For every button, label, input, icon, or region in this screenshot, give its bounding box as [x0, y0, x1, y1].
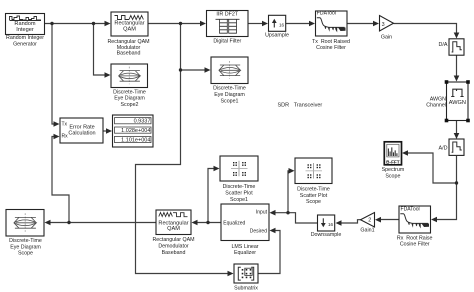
block: LMS Linear Equalizer [221, 204, 269, 256]
svg-text:Discrete-Time: Discrete-Time [9, 238, 42, 244]
svg-text:1.101e+004: 1.101e+004 [121, 138, 150, 144]
wire: D/A to AWGN Channel [454, 55, 460, 82]
svg-text:Tx: Tx [62, 122, 68, 128]
svg-text:Random Integer: Random Integer [6, 35, 44, 41]
block: Discrete-Time Eye Diagram Scope1 (top) [211, 57, 248, 104]
svg-text:Generator: Generator [13, 41, 37, 47]
wire: long branch down-left-down to Submatrix [136, 70, 234, 276]
svg-text:1.028e+004: 1.028e+004 [121, 128, 150, 134]
svg-text:Scatter Plot: Scatter Plot [225, 190, 253, 196]
block: Random Integer Generator [6, 14, 45, 48]
svg-text:Downsample: Downsample [311, 232, 342, 238]
svg-text:Discrete-Time: Discrete-Time [113, 89, 146, 95]
svg-text:Submatrix: Submatrix [234, 285, 258, 291]
block: Discrete-Time Eye Diagram Scope2 [111, 64, 148, 108]
svg-text:16: 16 [279, 22, 285, 27]
svg-text:Input: Input [256, 209, 268, 215]
svg-text:Scope1: Scope1 [221, 98, 239, 104]
wire: branch up-left-up to Error Rate Rx [52, 134, 69, 223]
svg-text:FDATool: FDATool [317, 11, 336, 17]
svg-text:Integer: Integer [16, 27, 34, 33]
junction: Spectrum Scope branch on A/D output wire [455, 181, 458, 184]
svg-text:Discrete-Time: Discrete-Time [213, 86, 246, 92]
svg-text:Equalizer: Equalizer [234, 250, 256, 256]
junction: Scatter Scope branch on downsample output wire [286, 211, 289, 214]
svg-text:Baseband: Baseband [162, 250, 186, 256]
svg-text:Scatter Plot: Scatter Plot [300, 193, 328, 199]
wire: QAM Modulator output to Digital Filter [148, 21, 206, 27]
svg-text:Eye Diagram: Eye Diagram [114, 96, 145, 102]
wire: Submatrix output up to LMS Desired [258, 228, 280, 274]
wire: Gain to D/A [394, 24, 460, 39]
svg-text:IIR DF2T: IIR DF2T [216, 12, 239, 18]
svg-text:Random: Random [14, 21, 35, 27]
wire: branch down to Error Rate Tx [52, 24, 60, 127]
junction: Eye Scope2 branch on generator output wire [92, 22, 95, 25]
block: Gain [380, 16, 394, 41]
wire: A/D down and left to Rx filter [431, 156, 457, 222]
block: Tx Root Raised Cosine Filter [312, 11, 350, 51]
svg-text:Rx Root Raise: Rx Root Raise [397, 235, 433, 241]
svg-text:16: 16 [328, 222, 334, 227]
svg-text:A/D: A/D [439, 145, 448, 151]
wire: Upsample to Tx filter [286, 21, 316, 27]
block: Spectrum Scope [382, 142, 405, 180]
wire: branch left-up to Spectrum Scope [402, 150, 457, 183]
svg-text:Rectangular QAM: Rectangular QAM [152, 237, 194, 243]
svg-text:Calculation: Calculation [68, 131, 95, 137]
block: A/D [439, 139, 465, 155]
svg-text:Scope2: Scope2 [121, 102, 139, 108]
wire: branch down to Eye Diagram Scope2 [94, 24, 111, 78]
svg-text:Baseband: Baseband [117, 51, 141, 57]
block: Rectangular QAM Demodulator Baseband [152, 210, 194, 256]
svg-text:D/A: D/A [439, 42, 448, 48]
svg-text:Upsample: Upsample [265, 32, 289, 38]
junction: Scatter Scope1 branch on equalized wire [206, 221, 209, 224]
svg-text:Eye Diagram: Eye Diagram [10, 244, 41, 250]
svg-text:B-FFT: B-FFT [386, 159, 400, 164]
svg-text:Gain: Gain [381, 35, 392, 41]
wire: Random Integer Generator output to Rectangular QAM Modulator [45, 21, 111, 27]
svg-text:QAM: QAM [123, 27, 136, 33]
svg-text:Discrete-Time: Discrete-Time [223, 184, 256, 190]
block: Rectangular QAM Modulator Baseband [107, 12, 149, 57]
wire: Rx filter to Gain1 [375, 217, 399, 223]
wire: Tx filter to Gain [347, 21, 379, 27]
block: Discrete-Time Eye Diagram Scope (bottom left) [6, 210, 44, 257]
wire: Downsample left then up to LMS Input [270, 210, 318, 223]
junction: Submatrix/Scope1 branch on modulator output wire [179, 22, 182, 25]
block: Downsample [311, 215, 342, 238]
svg-text:Digital Filter: Digital Filter [213, 39, 241, 45]
block: D/A [439, 39, 465, 55]
svg-text:Scope: Scope [385, 173, 400, 179]
wire: LMS Equalized output to QAM Demodulator [192, 220, 222, 226]
svg-text:Discrete-Time: Discrete-Time [297, 186, 330, 192]
block: Rx Root Raise Cosine Filter [397, 206, 433, 248]
block: Submatrix [234, 264, 258, 291]
wire: AWGN Channel to A/D [454, 121, 460, 140]
svg-text:SDR Transceiver: SDR Transceiver [278, 103, 323, 109]
block: Discrete-Time Scatter Plot Scope1 [220, 156, 258, 203]
svg-text:0.9337: 0.9337 [134, 119, 151, 125]
block: Error Rate Calculation [60, 118, 103, 143]
wire: branch up to Scatter Plot Scope [288, 168, 295, 213]
svg-text:Cosine Filter: Cosine Filter [316, 45, 346, 51]
selection handles [445, 80, 470, 122]
wire: branch to Eye Diagram Scope1 [181, 24, 211, 73]
wire: Digital Filter to Upsample [248, 21, 268, 27]
svg-text:Spectrum: Spectrum [382, 167, 405, 173]
svg-text:3: 3 [382, 22, 385, 28]
svg-text:Scope: Scope [18, 251, 33, 257]
svg-text:Gain1: Gain1 [360, 228, 374, 234]
svg-text:Desired: Desired [250, 229, 267, 235]
block: Discrete-Time Scatter Plot Scope [295, 158, 332, 205]
svg-text:FDATool: FDATool [401, 206, 420, 212]
svg-text:Scope1: Scope1 [230, 197, 248, 203]
junction: Tx branch on generator output wire [50, 22, 53, 25]
svg-text:Eye Diagram: Eye Diagram [214, 92, 245, 98]
block: Upsample [265, 15, 289, 38]
wire: Demodulator output to Eye Diagram Scope [45, 220, 157, 226]
wire: Gain1 to Downsample (with jog) [336, 220, 361, 226]
svg-text:Rx: Rx [62, 134, 69, 140]
junction: Eye Scope1 branch point [179, 68, 182, 71]
svg-text:Equalized: Equalized [223, 220, 245, 226]
wire: Error Rate output to Display [103, 128, 112, 134]
block: Digital Filter [207, 11, 249, 45]
svg-text:Scope: Scope [306, 199, 321, 205]
svg-text:Demodulator: Demodulator [158, 243, 189, 249]
svg-text:Cosine Filter: Cosine Filter [400, 242, 430, 248]
svg-text:AWGN: AWGN [449, 100, 466, 106]
junction: Error Rate Rx branch on demodulator output wire [67, 221, 70, 224]
svg-text:Channel: Channel [426, 102, 446, 108]
block: Display [113, 115, 154, 147]
block: Gain1 [360, 213, 374, 234]
svg-text:QAM: QAM [167, 226, 180, 232]
block: AWGN Channel [426, 80, 470, 122]
svg-text:2: 2 [368, 217, 371, 223]
wire: branch up to Scatter Plot Scope1 [208, 166, 220, 223]
